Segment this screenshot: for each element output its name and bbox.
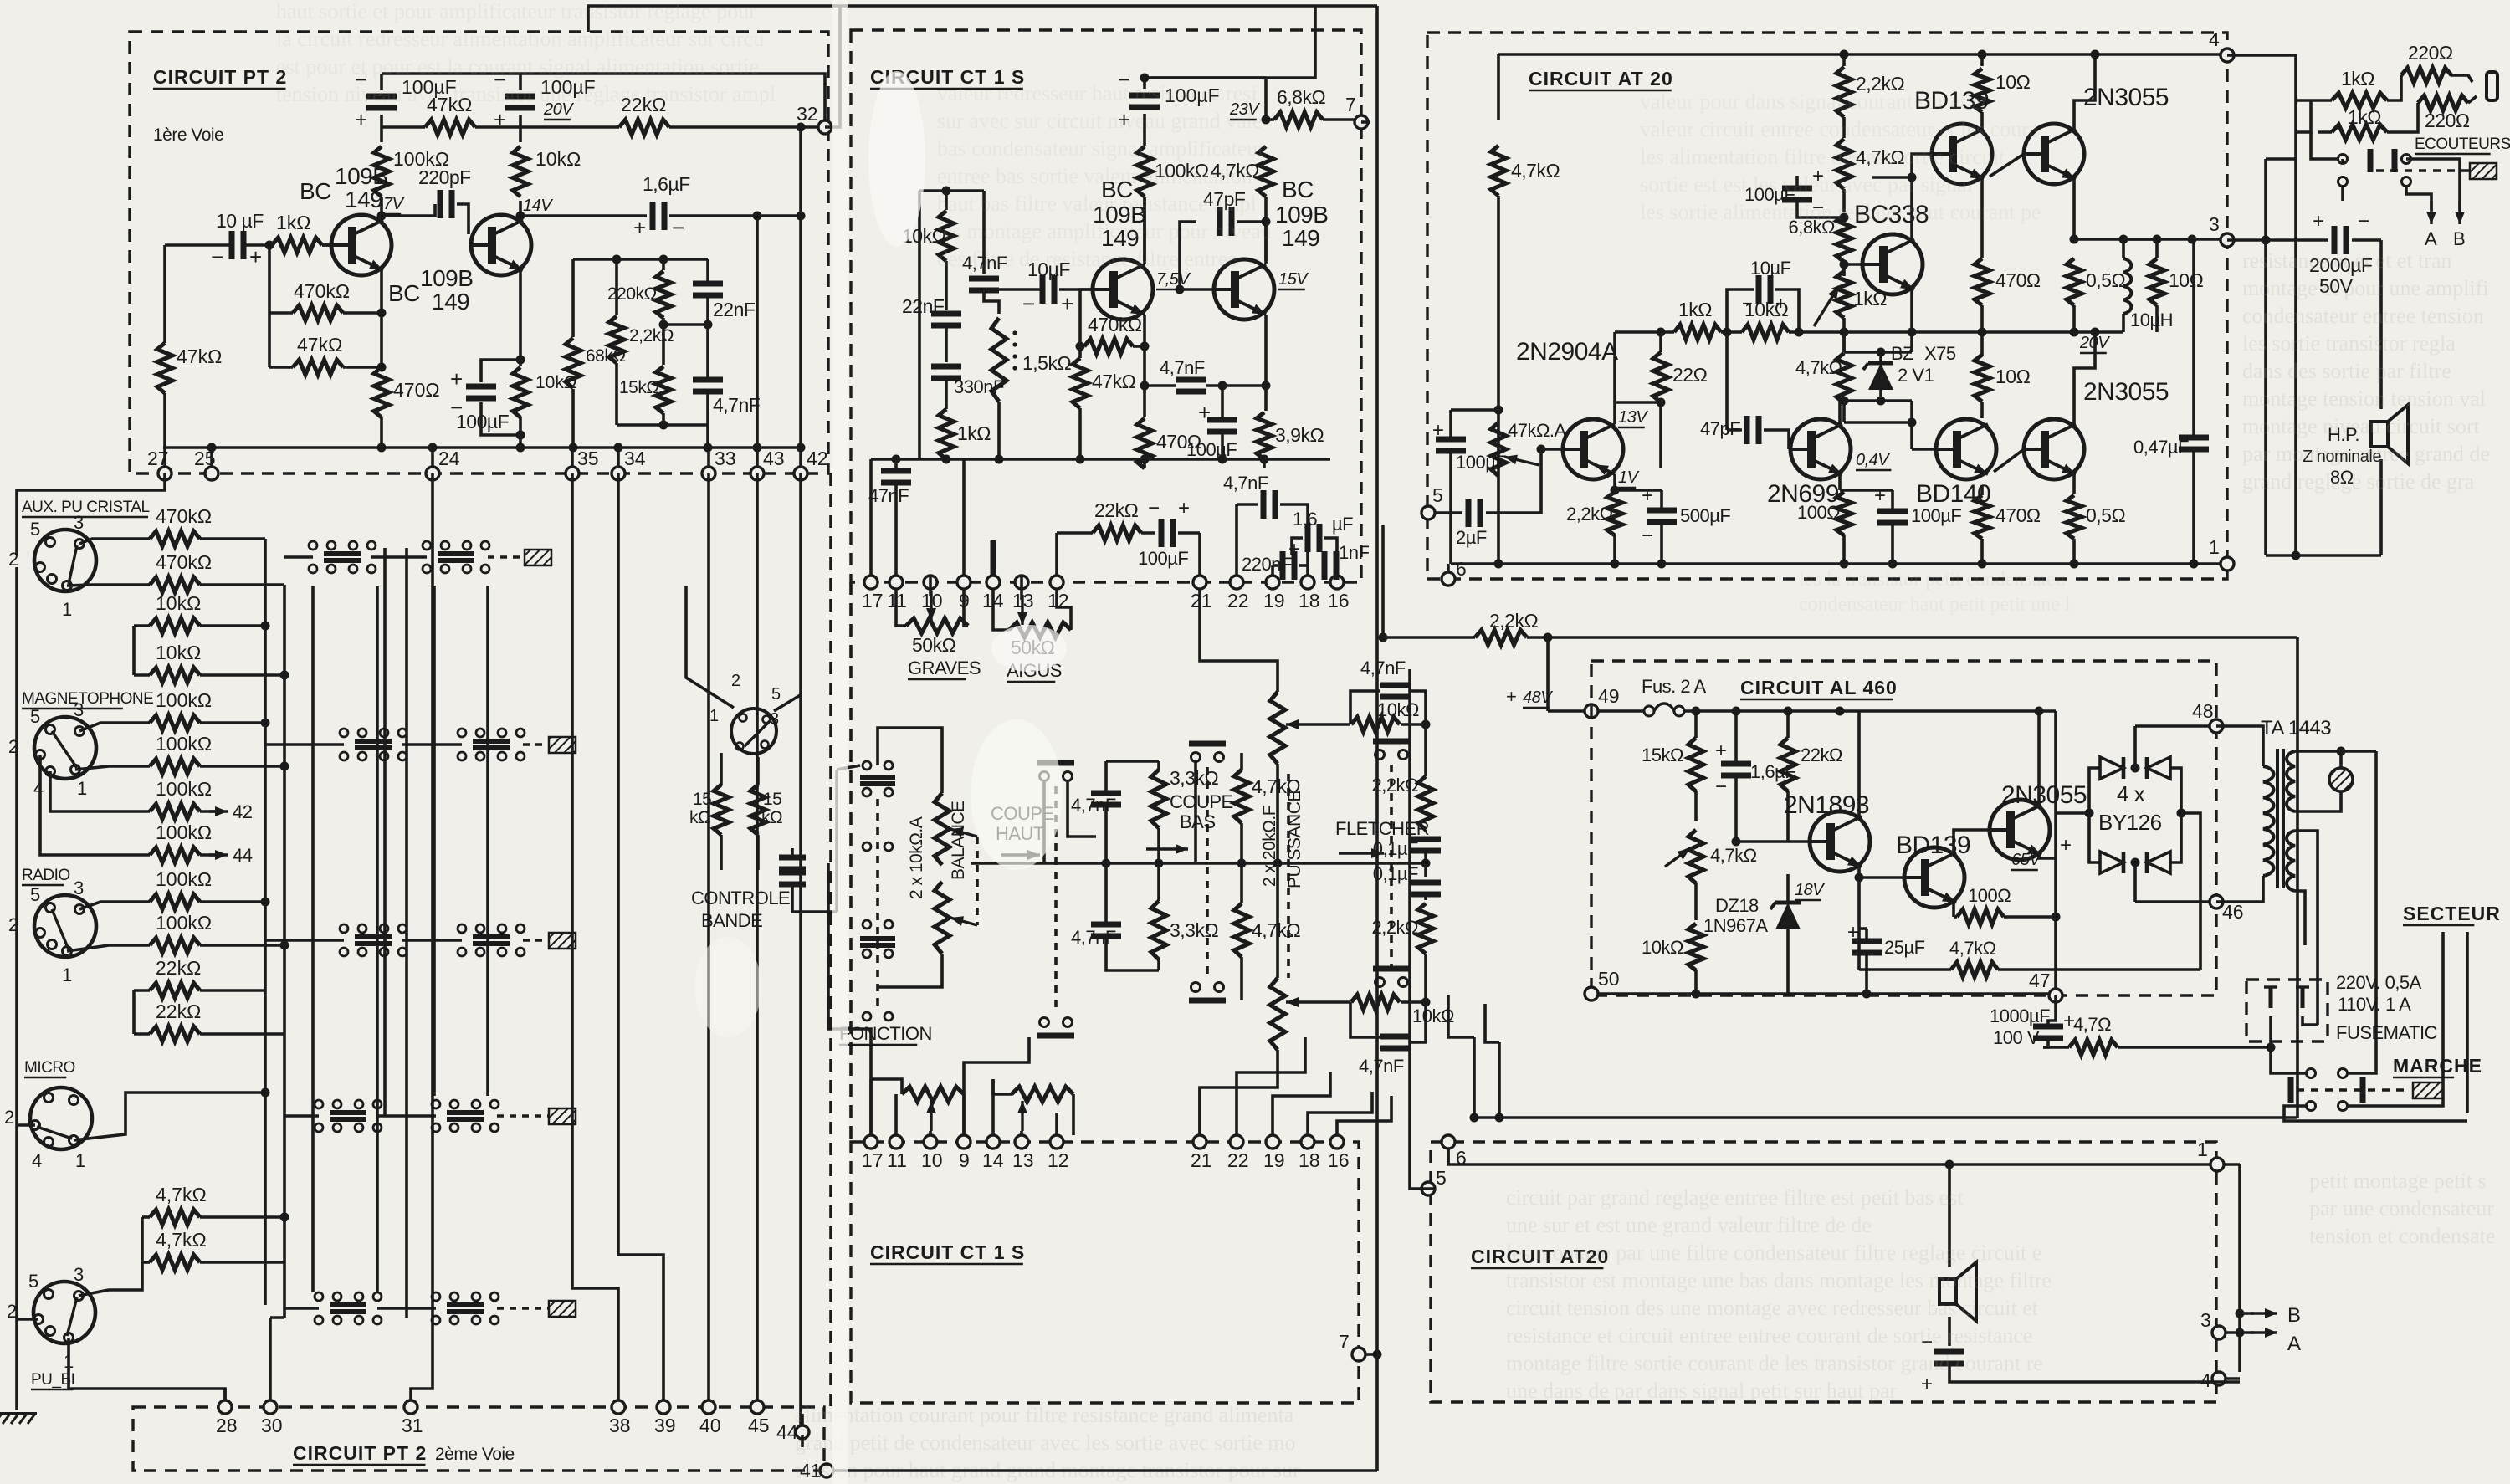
- svg-text:alimentation courant pour filt: alimentation courant pour filtre resista…: [795, 1403, 1294, 1427]
- wire BC338 collector: [1872, 177, 1912, 239]
- wire matrix bus 4: [486, 586, 489, 1096]
- switch row radio: [340, 924, 407, 956]
- transformer secondary coil 1: [2287, 751, 2295, 811]
- transistor 2N3055 AL460: [1990, 800, 2050, 860]
- wire: [993, 1079, 1012, 1094]
- wire: [1980, 124, 1984, 129]
- wire: [1865, 953, 1868, 994]
- wire: [756, 835, 760, 870]
- svg-text:B: B: [2287, 1304, 2301, 1327]
- resistor 22R AT20: [1653, 352, 1668, 402]
- wire: [791, 848, 794, 855]
- wire: [1143, 114, 1146, 146]
- svg-text:109B: 109B: [1275, 202, 1328, 228]
- svg-text:35: 35: [577, 448, 599, 469]
- svg-text:une dans de par dans signal pe: une dans de par dans signal petit sur ha…: [1506, 1379, 1897, 1403]
- wire AT20 bottom rail: [1451, 562, 2227, 565]
- svg-text:BY126: BY126: [2098, 810, 2162, 835]
- node: [516, 431, 525, 440]
- svg-text:COUPE: COUPE: [1170, 791, 1233, 812]
- wire top bus left: [588, 6, 840, 127]
- svg-text:11: 11: [887, 590, 907, 612]
- svg-text:1kΩ: 1kΩ: [2348, 106, 2381, 128]
- junction: [1723, 328, 1732, 337]
- wire pin41 bus: [833, 1469, 1377, 1472]
- speaker output: [1939, 1262, 1976, 1321]
- wire 2N2904A base: [1541, 448, 1563, 451]
- wire: [707, 448, 710, 467]
- wire: [1694, 711, 1698, 738]
- wire: [200, 1261, 284, 1264]
- pin 11 bottom: [887, 1135, 907, 1171]
- pin 22: [1227, 576, 1249, 612]
- svg-text:CONTROLE: CONTROLE: [691, 888, 790, 908]
- capacitor 100uF AT20 left: [1436, 439, 1466, 451]
- wire: [1948, 1317, 1951, 1346]
- transistor BC109B Q4: [1214, 259, 1274, 320]
- switch row aux b: [423, 541, 489, 573]
- junction: [2177, 809, 2186, 818]
- junction: [942, 455, 951, 464]
- arrow A out: [2251, 1328, 2277, 1338]
- inductor 10uH: [2123, 258, 2131, 314]
- svg-text:0,47µF: 0,47µF: [2133, 437, 2189, 458]
- wire: [79, 539, 150, 544]
- resistor 100k radio 2: [150, 912, 212, 953]
- rotary switch CONTROLE BANDE: [731, 709, 776, 754]
- resistor 4.7k mid: [1234, 770, 1249, 823]
- svg-text:circuit par grand reglage entr: circuit par grand reglage entree filtre …: [1506, 1185, 1964, 1210]
- wire: [1068, 781, 1096, 837]
- junction: [2070, 328, 2079, 337]
- capacitor 100uF bypass T2: [466, 386, 496, 398]
- wire: [1143, 197, 1146, 261]
- wire: [2295, 751, 2341, 768]
- wire riser 17: [828, 863, 871, 1135]
- svg-text:les sortie alimentation reglag: les sortie alimentation reglage haut cou…: [1640, 200, 2041, 224]
- wire: [1842, 318, 1846, 352]
- wire: [2296, 99, 2332, 102]
- svg-text:transistor est montage une bas: transistor est montage une bas dans mont…: [1506, 1268, 2052, 1292]
- wire: [945, 261, 948, 310]
- wire: [2192, 449, 2195, 564]
- junction bus A: [261, 719, 270, 728]
- svg-text:470kΩ: 470kΩ: [294, 280, 350, 302]
- junction: [1877, 348, 1886, 357]
- wire: [1891, 490, 1894, 511]
- svg-text:7,5V: 7,5V: [1156, 270, 1191, 289]
- svg-text:−: −: [1148, 497, 1160, 519]
- wire: [1789, 330, 1844, 334]
- wire BC338 emitter: [1910, 289, 1913, 332]
- svg-text:149: 149: [1282, 225, 1319, 251]
- wire: [1145, 76, 1266, 79]
- junction: [1836, 707, 1845, 716]
- wire T2 base: [469, 243, 473, 247]
- arrow to 44: [209, 850, 228, 860]
- wire: [488, 555, 525, 559]
- wire: [377, 1307, 436, 1310]
- wire: [1411, 691, 1426, 724]
- wire AT20 mid rail: [1844, 330, 2123, 334]
- wire: [2048, 995, 2056, 1026]
- capacitor 4.7nF coupe: [1091, 793, 1121, 805]
- svg-text:montage tension tension val: montage tension tension val: [2242, 386, 2486, 411]
- pin 16: [1328, 576, 1350, 612]
- pin 34: [612, 448, 646, 480]
- wire: [2387, 103, 2418, 132]
- svg-text:14: 14: [982, 1149, 1004, 1171]
- wire: [662, 318, 665, 365]
- svg-text:+: +: [249, 244, 262, 269]
- junction: [1692, 990, 1701, 999]
- svg-text:27: 27: [147, 448, 169, 469]
- svg-text:220pF: 220pF: [418, 166, 471, 188]
- pin 48: [2192, 700, 2223, 733]
- wire BD140 emitter link: [1994, 449, 2024, 472]
- arrow A phones: [2426, 201, 2436, 224]
- svg-text:49: 49: [1598, 685, 1620, 707]
- wire: [2122, 314, 2125, 332]
- pin 22 bottom: [1227, 1135, 1249, 1171]
- wire pin6 to pin1: [1448, 1149, 2210, 1164]
- wire bridge right: [2170, 768, 2181, 862]
- junction: [1795, 328, 1804, 337]
- junction: [2070, 560, 2079, 569]
- wire: [1449, 451, 1452, 468]
- svg-text:100µF: 100µF: [1138, 548, 1188, 569]
- wire: [2181, 813, 2200, 970]
- wire: [1276, 863, 1279, 978]
- svg-text:21: 21: [1191, 1149, 1212, 1171]
- svg-text:FONCTION: FONCTION: [839, 1023, 932, 1044]
- svg-text:est pour et pour est la couran: est pour et pour est la courant signal a…: [276, 54, 759, 79]
- wire: [1280, 504, 1308, 524]
- wire: [382, 125, 425, 129]
- wire: [2054, 711, 2057, 813]
- svg-text:+: +: [1061, 291, 1073, 316]
- svg-text:22Ω: 22Ω: [1672, 364, 1708, 386]
- wire: [134, 673, 150, 677]
- wire: [2054, 813, 2057, 989]
- transistor BD139: [1932, 124, 1992, 184]
- switch row magneto b: [458, 729, 525, 760]
- arrow B out: [2251, 1308, 2277, 1318]
- junction bus: [704, 443, 713, 453]
- DIN socket PU BI: [7, 1264, 95, 1372]
- resistor 22k AL460: [1780, 738, 1795, 791]
- potentiometer puissance upper: [1270, 692, 1285, 764]
- wire: [1859, 968, 1951, 971]
- wire pin14 stub: [991, 540, 996, 576]
- svg-text:28: 28: [216, 1415, 238, 1436]
- node: [659, 421, 668, 430]
- svg-text:2µF: 2µF: [1456, 527, 1487, 548]
- junction: [1470, 1113, 1479, 1123]
- dashed box CIRCUIT CT1S bottom: [851, 1142, 1359, 1403]
- svg-text:2: 2: [8, 736, 18, 757]
- svg-text:42: 42: [807, 448, 828, 469]
- wire BD139 base: [1912, 154, 1932, 177]
- svg-text:470kΩ: 470kΩ: [1088, 314, 1142, 335]
- wire: [1237, 503, 1258, 506]
- wire: [1879, 352, 1882, 363]
- resistor 220R phones: [2401, 68, 2451, 83]
- wire: [343, 311, 382, 315]
- wire: [200, 1032, 284, 1036]
- svg-text:50kΩ: 50kΩ: [912, 634, 956, 656]
- junction: [1260, 455, 1269, 464]
- wire puissance link: [1287, 774, 1290, 978]
- svg-text:15: 15: [763, 790, 781, 809]
- svg-text:4,7kΩ: 4,7kΩ: [1511, 160, 1560, 182]
- pin 19 bottom: [1263, 1135, 1285, 1171]
- svg-text:39: 39: [654, 1415, 676, 1436]
- wire: [2004, 915, 2056, 919]
- wire: [669, 214, 801, 217]
- wire: [1375, 594, 1379, 597]
- wire: [1451, 408, 1498, 412]
- svg-text:6: 6: [1456, 558, 1467, 580]
- pin 21 bottom: [1191, 1135, 1212, 1171]
- resistor 100k magneto 2: [150, 733, 212, 774]
- pin 16 bottom: [1328, 1135, 1350, 1171]
- wire: [1106, 760, 1159, 763]
- svg-text:47kΩ: 47kΩ: [1092, 371, 1136, 392]
- node T2 out: [516, 212, 525, 221]
- wire: [431, 448, 434, 467]
- pin 13: [1012, 576, 1034, 612]
- svg-text:47: 47: [2029, 970, 2051, 991]
- switch contacts fletcher top: [1373, 741, 1410, 760]
- potentiometer 4.7k AL460: [1688, 830, 1703, 883]
- transistor 2N1893: [1810, 811, 1870, 872]
- svg-text:10kΩ: 10kΩ: [1642, 937, 1683, 958]
- wire: [134, 989, 150, 992]
- wire: [519, 417, 522, 448]
- svg-text:5: 5: [30, 884, 40, 905]
- svg-text:1: 1: [62, 965, 72, 985]
- wire: [918, 191, 921, 459]
- junction bus B: [280, 941, 289, 950]
- wire main signal line: [971, 862, 1426, 865]
- svg-text:22nF: 22nF: [902, 295, 945, 317]
- wire: [2192, 238, 2221, 241]
- junction: [2091, 328, 2100, 337]
- wire: [1980, 112, 1984, 124]
- wire rotary right: [774, 694, 802, 711]
- svg-text:CIRCUIT AT 20: CIRCUIT AT 20: [1529, 68, 1673, 90]
- pot wiper aigus bottom: [1017, 1101, 1027, 1131]
- svg-text:15V: 15V: [1278, 270, 1309, 289]
- wire: [1263, 459, 1266, 468]
- connector block MARCHE: [2413, 1082, 2443, 1098]
- svg-text:1kΩ: 1kΩ: [276, 212, 311, 233]
- junction: [1908, 418, 1917, 427]
- svg-text:5: 5: [30, 519, 40, 540]
- wire: [2379, 240, 2383, 409]
- svg-text:1: 1: [77, 778, 87, 799]
- wire: [1998, 968, 2133, 971]
- svg-text:grand reglage sortie de gra: grand reglage sortie de gra: [2242, 469, 2475, 494]
- resistor 100k to 42: [150, 778, 212, 819]
- wire: [706, 259, 709, 284]
- wire secteur L: [2441, 932, 2445, 1071]
- svg-text:2N3055: 2N3055: [2083, 378, 2169, 406]
- wire Q4 emitter: [1264, 315, 1268, 411]
- wire: [2043, 1046, 2069, 1049]
- svg-text:1000µF: 1000µF: [1990, 1006, 2050, 1026]
- wire: [1424, 830, 1427, 832]
- wire: [1865, 929, 1868, 941]
- wire: [2295, 791, 2341, 811]
- wire: [720, 835, 723, 870]
- wire bus drop right: [2296, 637, 2299, 1118]
- capacitor C 100uF input stage: [355, 67, 457, 132]
- svg-text:3: 3: [2209, 213, 2220, 235]
- wire: [720, 753, 723, 785]
- switch contacts fletcher bottom: [1373, 969, 1410, 987]
- wire: [200, 900, 265, 903]
- transistor 2N3055 lower: [2024, 419, 2084, 479]
- junction: [614, 443, 623, 453]
- wire: [2240, 1312, 2254, 1315]
- wire: [1424, 954, 1427, 1016]
- label BALANCE: [949, 801, 968, 880]
- svg-text:470kΩ: 470kΩ: [156, 551, 212, 573]
- wire Q4 base: [1180, 288, 1214, 291]
- capacitor 100uF AT20 b: [1877, 511, 1908, 523]
- svg-text:4,7nF: 4,7nF: [713, 394, 761, 416]
- svg-text:4,7Ω: 4,7Ω: [2073, 1014, 2111, 1035]
- svg-text:100µF: 100µF: [456, 411, 510, 432]
- pin 43: [750, 448, 785, 480]
- speaker H.P.: [2371, 405, 2408, 463]
- pot wiper puissance upper: [1286, 719, 1350, 729]
- wire: [792, 887, 837, 912]
- svg-text:DZ18: DZ18: [1715, 895, 1759, 916]
- wire: [1786, 791, 1790, 841]
- node: [659, 255, 668, 264]
- wire pin13 wiper: [1020, 576, 1023, 600]
- wire: [1448, 995, 1474, 1037]
- svg-text:25µF: 25µF: [1884, 937, 1925, 958]
- wire: [2406, 159, 2460, 182]
- junction: [892, 455, 901, 464]
- svg-text:sortie est est les valeur avec: sortie est est les valeur avec par signa…: [1640, 172, 1973, 197]
- potentiometer balance lower: [935, 882, 950, 954]
- svg-text:0,1µF: 0,1µF: [1373, 838, 1418, 859]
- wire: [706, 425, 709, 448]
- wire: [756, 757, 760, 785]
- wire: [1350, 691, 1380, 724]
- resistor 10k emitter T2: [513, 367, 577, 417]
- wire riser 22: [1237, 1037, 1305, 1135]
- wire: [1844, 421, 1912, 424]
- wire balance top: [878, 728, 942, 793]
- svg-text:47kΩ: 47kΩ: [177, 345, 222, 367]
- wire: [1240, 753, 1243, 770]
- pot wiper graves: [926, 591, 936, 621]
- svg-text:CIRCUIT CT 1 S: CIRCUIT CT 1 S: [870, 1241, 1025, 1263]
- wire: [1659, 402, 1662, 468]
- wire: [523, 939, 549, 942]
- wire riser 19: [1273, 1072, 1330, 1135]
- junction: [1978, 50, 1987, 59]
- junction: [1908, 328, 1917, 337]
- switch bank FONCTION: [860, 761, 895, 1021]
- junction: [2085, 809, 2094, 818]
- fuse link 110V: [2296, 987, 2309, 1008]
- junction: [1692, 707, 1701, 716]
- resistor 10k tone: [939, 211, 954, 261]
- wire: [1789, 448, 1790, 451]
- junction: [2190, 560, 2199, 569]
- resistor 100k radio: [150, 868, 212, 909]
- wire puissance top: [1200, 590, 1278, 692]
- wire: [1133, 345, 1145, 348]
- svg-text:BD139: BD139: [1896, 832, 1970, 859]
- svg-text:1: 1: [2209, 536, 2220, 558]
- node: [704, 320, 713, 330]
- wire: [200, 583, 284, 586]
- transistor BC338: [1862, 234, 1923, 294]
- wire: [1276, 764, 1279, 863]
- wire: [497, 1114, 549, 1118]
- wire pin12 riser: [1055, 533, 1058, 576]
- junction bus: [377, 443, 387, 453]
- wire: [284, 555, 313, 559]
- junction bus A: [261, 1088, 270, 1098]
- svg-text:15kΩ: 15kΩ: [1642, 745, 1683, 765]
- svg-text:BC: BC: [300, 178, 331, 204]
- wire BD140 base: [1912, 448, 1936, 451]
- svg-text:valeur circuit entree condensa: valeur circuit entree condensateur et le…: [1640, 117, 2039, 141]
- junction: [1544, 633, 1553, 642]
- svg-text:14: 14: [982, 590, 1004, 612]
- capacitor 4.7nF fletcher top: [1380, 685, 1411, 697]
- wire: [1350, 1002, 1380, 1037]
- wire: [945, 191, 948, 210]
- wire Q3 emitter: [1143, 315, 1146, 417]
- svg-text:1,6µF: 1,6µF: [643, 173, 690, 195]
- wire pin21 riser: [1198, 533, 1201, 576]
- wire: [1157, 959, 1160, 970]
- svg-text:4,7kΩ: 4,7kΩ: [156, 1229, 207, 1251]
- wire: [67, 585, 150, 586]
- svg-text:4,7kΩ: 4,7kΩ: [1795, 357, 1842, 378]
- svg-text:12: 12: [1048, 590, 1069, 612]
- DIN chord: [37, 1127, 72, 1139]
- resistor 0.5R AT20 b: [2067, 495, 2082, 539]
- capacitor 1.6uF AL460: [1721, 764, 1751, 775]
- svg-text:220V. 0,5A: 220V. 0,5A: [2336, 972, 2422, 993]
- wire: [402, 939, 462, 942]
- wire: [706, 391, 709, 425]
- wire: [200, 944, 284, 947]
- node: [516, 356, 525, 365]
- wire 220pF to T2 base: [457, 204, 469, 234]
- wire to pin 42: [799, 127, 802, 448]
- wire: [669, 125, 818, 129]
- svg-text:4: 4: [33, 778, 44, 799]
- dashed box FUSEMATIC selector: [2246, 980, 2328, 1041]
- wire: [1240, 823, 1243, 903]
- wire: [380, 417, 383, 448]
- wire: [1615, 489, 1662, 492]
- junction: [1908, 173, 1917, 182]
- svg-text:10µF: 10µF: [1750, 258, 1791, 279]
